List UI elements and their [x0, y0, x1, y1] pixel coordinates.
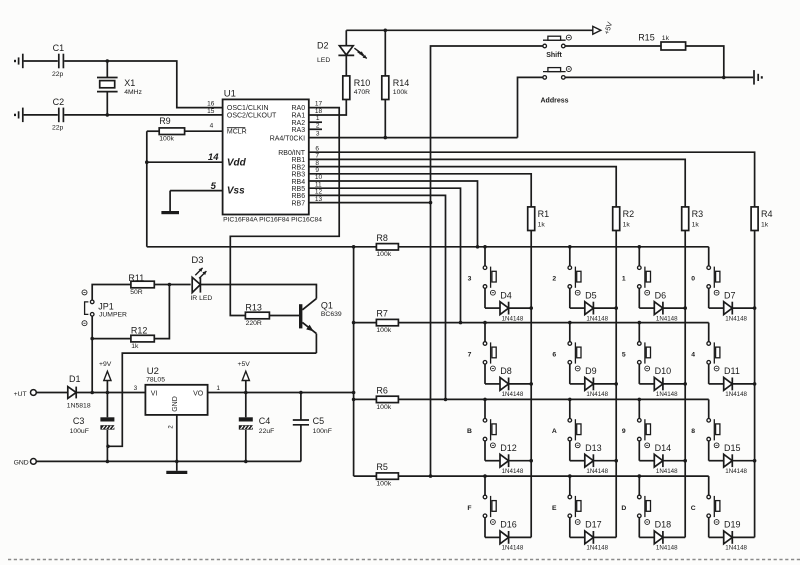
value label 100uF: [70, 428, 89, 435]
node key F: [467, 505, 471, 512]
wire: [683, 231, 687, 538]
svg-text:16: 16: [207, 101, 215, 108]
svg-text:RB6: RB6: [291, 193, 305, 200]
node key 6: [552, 351, 556, 358]
value label 1N4148: [586, 468, 608, 475]
svg-text:9: 9: [622, 428, 626, 435]
svg-text:R14: R14: [393, 78, 410, 88]
svg-text:7: 7: [468, 351, 472, 358]
switch S4: [707, 323, 720, 371]
svg-text:14: 14: [208, 152, 219, 163]
ground: [161, 211, 179, 214]
pin 2: [168, 425, 174, 429]
pin 1: [316, 115, 320, 122]
svg-text:3: 3: [316, 131, 320, 138]
wire: [565, 76, 724, 78]
LED D3 (IR): [191, 255, 206, 293]
value label 100k: [376, 251, 391, 258]
wire: [36, 460, 301, 464]
wire RB7 net: [309, 203, 433, 478]
wire row: [398, 474, 708, 478]
diode D18: [639, 518, 685, 544]
svg-text:D9: D9: [585, 366, 597, 376]
svg-text:JP1: JP1: [98, 301, 114, 311]
value label LED: [317, 57, 330, 64]
diode D16: [485, 518, 531, 544]
svg-text:1N4148: 1N4148: [656, 545, 678, 552]
value label 1N5818: [67, 403, 91, 410]
wire: [147, 130, 223, 132]
node key 1: [622, 276, 626, 283]
switch SA: [568, 399, 581, 447]
ground: [754, 70, 762, 85]
wire: [24, 60, 58, 62]
svg-text:D14: D14: [655, 443, 672, 453]
power +5V: [238, 361, 251, 393]
pin 8: [315, 160, 319, 167]
svg-text:RA3: RA3: [291, 127, 305, 134]
resistor R4: [751, 207, 772, 231]
wire: [753, 231, 757, 538]
svg-text:C2: C2: [53, 97, 65, 107]
svg-text:1k: 1k: [623, 221, 631, 228]
diode D9: [570, 364, 616, 390]
svg-text:100k: 100k: [376, 251, 391, 258]
svg-text:R12: R12: [131, 326, 148, 336]
switch S3: [483, 247, 496, 295]
svg-text:Vss: Vss: [227, 186, 245, 197]
resistor R3: [682, 207, 703, 231]
svg-text:Address: Address: [540, 98, 568, 105]
pin 7: [315, 153, 319, 160]
svg-text:3: 3: [468, 276, 472, 283]
svg-text:IR LED: IR LED: [190, 295, 212, 302]
diode D10: [639, 364, 685, 390]
svg-text:1k: 1k: [761, 221, 769, 228]
transistor Q1: [299, 285, 333, 353]
svg-text:D3: D3: [191, 255, 203, 266]
svg-text:RA2: RA2: [291, 120, 305, 127]
ground: [166, 471, 187, 474]
svg-text:RB7: RB7: [291, 200, 305, 207]
wire: [170, 191, 223, 211]
value label 50R: [130, 289, 143, 296]
svg-text:A: A: [552, 428, 557, 435]
svg-text:R13: R13: [245, 303, 262, 313]
svg-text:RB0/INT: RB0/INT: [278, 150, 306, 157]
svg-text:RA4/T0CKI: RA4/T0CKI: [270, 135, 305, 142]
wire: [36, 392, 68, 394]
switch S9: [638, 399, 651, 447]
capacitor C3: [73, 393, 115, 462]
wire: [529, 231, 533, 538]
svg-text:RB5: RB5: [291, 186, 305, 193]
svg-text:D15: D15: [724, 443, 741, 453]
jumper JP1: [82, 290, 114, 326]
wire: [24, 114, 58, 116]
node key 3: [468, 276, 472, 283]
wire: [208, 391, 356, 395]
node key 4: [691, 351, 695, 358]
svg-text:C1: C1: [53, 43, 65, 53]
svg-text:1N4148: 1N4148: [725, 391, 747, 398]
PIC microcontroller U1: [223, 89, 323, 224]
switch Shift: [543, 35, 571, 59]
value label BC639: [321, 311, 342, 318]
ground: [15, 108, 23, 123]
wire RB1 net: [309, 159, 685, 207]
value label 1N4148: [656, 315, 678, 322]
diode D15: [709, 441, 755, 467]
capacitor C2: [53, 97, 65, 122]
wire: [200, 284, 316, 287]
diode D5: [570, 288, 616, 314]
resistor R11: [128, 273, 154, 288]
pin 3: [134, 385, 138, 392]
value label IR LED: [190, 295, 212, 302]
node key 8: [691, 428, 695, 435]
switch S2: [568, 247, 581, 295]
switch S7: [483, 323, 496, 371]
svg-text:D17: D17: [585, 520, 602, 530]
capacitor C1: [53, 43, 65, 68]
svg-text:D19: D19: [724, 520, 741, 530]
wire: [384, 100, 388, 140]
svg-text:1: 1: [316, 115, 320, 122]
svg-text:4MHz: 4MHz: [124, 89, 142, 96]
svg-text:1N4148: 1N4148: [586, 315, 608, 322]
svg-text:1k: 1k: [662, 35, 670, 42]
value label 470R: [354, 89, 370, 96]
wire Vdd to R8: [147, 245, 377, 249]
value label 1N4148: [656, 391, 678, 398]
resistor R8: [376, 233, 398, 250]
resistor R6: [376, 385, 398, 402]
svg-text:15: 15: [207, 108, 215, 115]
svg-text:1N4148: 1N4148: [502, 391, 524, 398]
pin 14: [208, 152, 219, 163]
svg-text:1N5818: 1N5818: [67, 403, 91, 410]
switch S1: [638, 247, 651, 295]
svg-text:D10: D10: [655, 366, 672, 376]
value label 1N4148: [656, 468, 678, 475]
pin 16: [207, 101, 215, 108]
svg-text:U1: U1: [224, 89, 236, 100]
node key 7: [468, 351, 472, 358]
svg-text:D2: D2: [317, 41, 329, 51]
wire: [76, 391, 145, 395]
svg-text:RA0: RA0: [291, 105, 305, 112]
value label 100nF: [313, 428, 332, 435]
svg-text:100k: 100k: [393, 89, 408, 96]
diode D1: [68, 374, 81, 398]
svg-text:1N4148: 1N4148: [656, 315, 678, 322]
resistor R1: [528, 207, 549, 231]
wire RA4 net: [309, 137, 518, 139]
svg-text:VI: VI: [151, 391, 158, 398]
wire: [686, 46, 754, 79]
pin 15: [207, 108, 215, 115]
svg-text:22uF: 22uF: [259, 428, 275, 435]
svg-text:4: 4: [210, 123, 214, 130]
svg-text:1N4148: 1N4148: [586, 545, 608, 552]
wire: [64, 113, 222, 117]
svg-text:100uF: 100uF: [70, 428, 89, 435]
resistor R5: [376, 462, 398, 479]
value label 1N4148: [586, 545, 608, 552]
svg-text:C: C: [691, 505, 696, 512]
svg-text:5: 5: [211, 181, 217, 192]
pin 9: [315, 167, 319, 174]
wire: [269, 315, 299, 317]
svg-text:PIC16F84A PIC16F84 PIC16C84: PIC16F84A PIC16F84 PIC16C84: [223, 217, 322, 224]
wire: [309, 128, 322, 130]
svg-text:22p: 22p: [52, 71, 64, 78]
wire: [92, 285, 131, 301]
diode D14: [639, 441, 685, 467]
svg-text:R4: R4: [761, 209, 773, 219]
resistor R9: [159, 116, 184, 135]
wire row: [398, 398, 708, 402]
svg-text:6: 6: [552, 351, 556, 358]
switch S0: [707, 247, 720, 295]
value label 100k: [159, 136, 174, 143]
svg-text:D4: D4: [500, 290, 512, 300]
svg-text:+5V: +5V: [238, 361, 251, 368]
svg-text:RA1: RA1: [291, 113, 305, 120]
node key B: [467, 428, 472, 435]
svg-text:D11: D11: [724, 366, 740, 376]
diode D7: [709, 288, 755, 314]
svg-text:GND: GND: [14, 460, 29, 467]
pin 2: [316, 122, 320, 129]
node key C: [691, 505, 696, 512]
svg-text:R15: R15: [638, 33, 655, 43]
crystal X1: [97, 61, 135, 115]
pin 18: [315, 108, 323, 115]
resistor R14: [382, 30, 410, 99]
value label 100k: [376, 404, 391, 411]
value label 4MHz: [124, 89, 142, 96]
switch S6: [568, 323, 581, 371]
wire row: [398, 321, 708, 325]
svg-text:D6: D6: [655, 290, 667, 300]
svg-text:RB3: RB3: [291, 172, 305, 179]
wire: [309, 100, 347, 115]
value label 22p: [52, 71, 64, 78]
node key A: [552, 428, 557, 435]
svg-text:1N4148: 1N4148: [725, 468, 747, 475]
svg-text:MCLR: MCLR: [227, 129, 247, 136]
value label 1N4148: [502, 545, 524, 552]
wire: [8, 559, 800, 561]
svg-text:VO: VO: [193, 391, 204, 398]
svg-text:50R: 50R: [130, 289, 143, 296]
diode D4: [485, 288, 531, 314]
svg-text:220R: 220R: [246, 320, 262, 327]
svg-text:+9V: +9V: [99, 361, 112, 368]
diode D17: [570, 518, 616, 544]
svg-text:22p: 22p: [52, 125, 64, 132]
resistor R13: [245, 303, 269, 319]
svg-text:JUMPER: JUMPER: [99, 312, 127, 319]
svg-text:BC639: BC639: [321, 311, 342, 318]
svg-text:8: 8: [691, 428, 695, 435]
svg-text:D7: D7: [724, 290, 736, 300]
wire: [518, 77, 543, 137]
value label 220R: [246, 320, 262, 327]
svg-text:78L05: 78L05: [146, 376, 165, 383]
node key 0: [691, 276, 695, 283]
wire: [154, 283, 190, 287]
value label 22uF: [259, 428, 275, 435]
svg-text:C5: C5: [313, 416, 325, 426]
svg-text:0: 0: [691, 276, 695, 283]
capacitor C4: [239, 393, 271, 462]
wire RB2 net: [309, 167, 616, 207]
terminal +UT: [14, 390, 37, 398]
diode D8: [485, 364, 531, 390]
wire: [309, 121, 322, 123]
terminal GND: [14, 459, 37, 467]
svg-text:R7: R7: [376, 309, 388, 319]
svg-text:D1: D1: [69, 374, 81, 384]
svg-text:R3: R3: [692, 209, 704, 219]
svg-text:3: 3: [134, 385, 138, 392]
switch SB: [483, 399, 496, 447]
capacitor C5: [293, 393, 324, 462]
pin 10: [315, 174, 323, 181]
diode D6: [639, 288, 685, 314]
wire: [346, 29, 593, 33]
wire RB4 net: [309, 181, 480, 249]
value label JUMPER: [99, 312, 127, 319]
power +9V: [99, 361, 112, 393]
switch SD: [638, 476, 651, 524]
wire RB6 net: [309, 195, 448, 401]
svg-text:C4: C4: [259, 416, 271, 426]
svg-text:D16: D16: [500, 520, 517, 530]
resistor R10: [343, 76, 371, 100]
svg-text:17: 17: [315, 101, 323, 108]
value label 1N4148: [725, 468, 747, 475]
svg-text:100nF: 100nF: [313, 428, 332, 435]
wire: [175, 415, 179, 471]
svg-text:D12: D12: [500, 443, 517, 453]
svg-text:100k: 100k: [376, 481, 391, 488]
value label 1N4148: [725, 315, 747, 322]
value label 1N4148: [502, 468, 524, 475]
svg-text:1N4148: 1N4148: [502, 468, 524, 475]
svg-text:1: 1: [216, 385, 220, 392]
switch SF: [483, 476, 496, 524]
svg-text:1N4148: 1N4148: [502, 545, 524, 552]
resistor R7: [376, 309, 398, 326]
pin 17: [315, 101, 323, 108]
svg-text:E: E: [552, 505, 557, 512]
wire +5V bus: [352, 247, 356, 476]
value label 100k: [376, 481, 391, 488]
svg-text:Vdd: Vdd: [227, 157, 247, 168]
svg-text:5: 5: [622, 351, 626, 358]
node key D: [621, 505, 626, 512]
wire: [64, 59, 222, 107]
svg-text:1N4148: 1N4148: [586, 468, 608, 475]
svg-text:D8: D8: [500, 366, 512, 376]
diode D11: [709, 364, 755, 390]
value label 1N4148: [656, 545, 678, 552]
value label 1k: [623, 221, 631, 228]
wire RB3 net: [309, 174, 531, 207]
diode D12: [485, 441, 531, 467]
svg-text:R8: R8: [376, 233, 388, 243]
svg-text:D13: D13: [585, 443, 602, 453]
svg-text:D5: D5: [585, 290, 597, 300]
wire RB5 net: [309, 188, 463, 324]
ground: [15, 54, 23, 68]
node key 5: [622, 351, 626, 358]
wire: [354, 398, 377, 400]
pin 3: [316, 131, 320, 138]
value label 1N4148: [586, 315, 608, 322]
switch SE: [568, 476, 581, 524]
wire: [106, 353, 316, 448]
diode D19: [709, 518, 755, 544]
svg-text:Q1: Q1: [321, 301, 333, 311]
svg-text:18: 18: [315, 108, 323, 115]
value label 1k: [662, 35, 670, 42]
svg-text:1N4148: 1N4148: [725, 315, 747, 322]
svg-text:1: 1: [622, 276, 626, 283]
svg-text:1N4148: 1N4148: [502, 315, 524, 322]
pin 11: [315, 181, 322, 188]
svg-text:R2: R2: [623, 209, 635, 219]
value label 1N4148: [725, 391, 747, 398]
value label 22p: [52, 125, 64, 132]
node key 2: [552, 276, 556, 283]
value label 1N4148: [502, 315, 524, 322]
svg-text:R5: R5: [376, 462, 388, 472]
svg-text:100k: 100k: [376, 404, 391, 411]
wire: [565, 45, 661, 47]
wire: [145, 131, 223, 247]
svg-text:X1: X1: [124, 78, 135, 88]
pin 12: [315, 189, 323, 196]
switch S8: [707, 399, 720, 447]
wire RB0 net: [309, 152, 755, 207]
pin 13: [315, 196, 323, 203]
svg-text:2: 2: [552, 276, 556, 283]
svg-text:1k: 1k: [538, 221, 546, 228]
diode D13: [570, 441, 616, 467]
pin 5: [211, 181, 217, 192]
node key E: [552, 505, 557, 512]
wire RA0 net: [230, 108, 339, 316]
LED D2: [317, 30, 367, 76]
pin 4: [210, 123, 214, 130]
svg-text:R11: R11: [128, 273, 144, 283]
switch Address: [540, 67, 571, 105]
svg-text:1N4148: 1N4148: [656, 391, 678, 398]
svg-text:OSC2/CLKOUT: OSC2/CLKOUT: [227, 113, 277, 120]
svg-text:D: D: [621, 505, 626, 512]
svg-text:C3: C3: [73, 416, 85, 426]
resistor R15: [638, 33, 685, 51]
svg-text:+UT: +UT: [14, 391, 27, 398]
svg-text:1k: 1k: [131, 343, 139, 350]
value label 1N4148: [586, 391, 608, 398]
svg-text:1N4148: 1N4148: [656, 468, 678, 475]
